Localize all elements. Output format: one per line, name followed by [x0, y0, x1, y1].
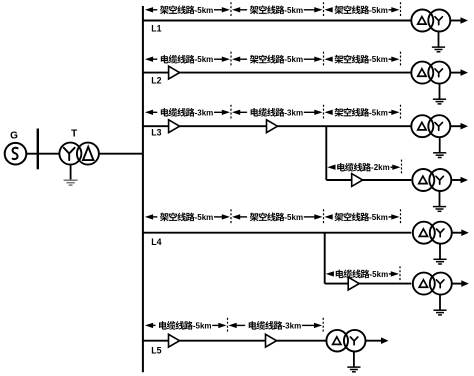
wire L4 branch horizontal	[325, 283, 412, 285]
label L2	[151, 75, 161, 85]
wire T to main bus	[99, 153, 143, 155]
svg-text:-3km: -3km	[284, 108, 303, 117]
wire L4 branch vertical	[324, 233, 326, 284]
transformer T3b (L3 branch load)	[412, 169, 451, 191]
switch arrow (L5 second)	[266, 334, 277, 347]
svg-text:L2: L2	[151, 75, 161, 85]
generator G	[5, 143, 27, 165]
transformer T4 (L4 load)	[413, 222, 452, 244]
svg-text:-5km: -5km	[195, 6, 214, 15]
dimension 架空线路-5km (L1 segment 3)	[325, 2, 401, 17]
wire L3	[143, 125, 411, 127]
svg-text:-5km: -5km	[284, 6, 303, 15]
svg-text:-2km: -2km	[371, 163, 390, 172]
wire bus bar to transformer T	[38, 153, 60, 155]
label G	[10, 130, 18, 141]
ground (T4b)	[433, 295, 446, 315]
dimension 电缆线路-5km (L5 segment 1)	[145, 318, 228, 333]
main bus	[142, 6, 144, 372]
svg-text:L3: L3	[151, 128, 161, 138]
ground (T4)	[433, 244, 446, 264]
svg-text:L1: L1	[151, 23, 161, 33]
wire L4	[143, 232, 411, 234]
wire L3 branch vertical	[325, 126, 327, 180]
svg-text:-5km: -5km	[284, 213, 303, 222]
transformer T	[59, 143, 99, 165]
svg-text:-5km: -5km	[369, 108, 388, 117]
svg-text:-3km: -3km	[283, 321, 302, 330]
wire L3 branch horizontal	[326, 179, 411, 181]
switch arrow (L3 branch)	[352, 174, 363, 187]
transformer T4b (L4 branch load)	[413, 273, 452, 295]
switch arrow (L2)	[169, 66, 180, 79]
svg-text:-5km: -5km	[195, 55, 214, 64]
transformer T2 (L2 load)	[411, 62, 450, 84]
ground (T2)	[433, 84, 446, 104]
ground (T5)	[347, 352, 360, 372]
dimension 电缆线路-3km (L3 segment 1)	[145, 105, 231, 120]
svg-text:G: G	[10, 130, 18, 141]
label L3	[151, 128, 161, 138]
switch arrow (L4 branch)	[348, 277, 359, 290]
dimension 架空线路-5km (L1 segment 1)	[145, 2, 231, 17]
transformer T5 (L5 load)	[326, 330, 365, 352]
svg-text:-3km: -3km	[195, 108, 214, 117]
load arrow L2	[450, 69, 468, 76]
dimension 电缆线路-3km (L5 segment 2)	[229, 318, 324, 333]
svg-text:-5km: -5km	[369, 6, 388, 15]
dimension 架空线路-5km (L2 segment 3)	[325, 52, 401, 67]
svg-text:-5km: -5km	[369, 55, 388, 64]
svg-text:-5km: -5km	[369, 213, 388, 222]
dimension 架空线路-5km (L4 segment 3)	[325, 209, 401, 224]
load arrow L5	[366, 337, 389, 344]
wire L1	[143, 20, 411, 22]
switch arrow (L3 second)	[267, 120, 278, 133]
dimension 电缆线路-5km (L2 segment 1)	[145, 52, 231, 67]
wire L2	[143, 72, 411, 74]
bus bar (generator)	[37, 129, 39, 170]
dimension 架空线路-5km (L3 segment 3)	[325, 105, 401, 120]
label L5	[151, 345, 161, 355]
dimension 架空线路-5km (L2 segment 2)	[232, 52, 324, 67]
load arrow L3	[450, 123, 468, 130]
svg-text:-5km: -5km	[370, 270, 389, 279]
label L4	[151, 237, 161, 247]
svg-text:-5km: -5km	[193, 321, 212, 330]
switch arrow (L5 first)	[169, 334, 180, 347]
dimension 电缆线路-3km (L3 segment 2)	[232, 105, 324, 120]
load arrow L4	[452, 229, 469, 236]
svg-text:-5km: -5km	[195, 213, 214, 222]
transformer T1 (L1 load)	[411, 10, 450, 32]
dimension 架空线路-5km (L1 segment 2)	[232, 2, 324, 17]
dimension 电缆线路-2km (L3 branch)	[327, 160, 401, 175]
svg-text:-5km: -5km	[284, 55, 303, 64]
transformer T3 (L3 load)	[411, 115, 450, 137]
wire generator to bus bar	[26, 153, 38, 155]
label L1	[151, 23, 161, 33]
load arrow L4 branch	[452, 280, 469, 287]
load arrow L3 branch	[451, 177, 468, 184]
dimension 架空线路-5km (L4 segment 1)	[145, 209, 231, 224]
ground (T1)	[432, 32, 445, 52]
ground (transformer T neutral)	[64, 165, 78, 186]
svg-text:L5: L5	[151, 345, 161, 355]
dimension 架空线路-5km (L4 segment 2)	[232, 209, 324, 224]
switch arrow (L3 first)	[169, 120, 180, 133]
wire L5	[143, 340, 327, 342]
label T	[71, 129, 77, 140]
dimension 电缆线路-5km (L4 branch)	[326, 266, 400, 281]
ground (T3)	[433, 137, 446, 157]
svg-text:L4: L4	[151, 237, 161, 247]
svg-text:T: T	[71, 129, 77, 140]
ground (T3b)	[433, 191, 446, 211]
load arrow L1	[450, 17, 468, 24]
